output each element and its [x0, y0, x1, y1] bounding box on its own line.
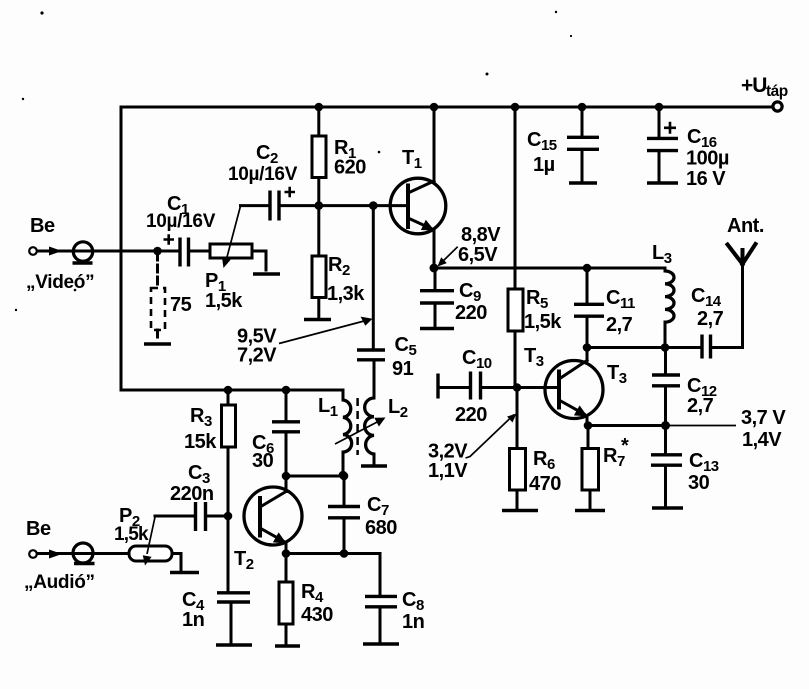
svg-text:1,5k: 1,5k: [524, 311, 562, 333]
svg-text:Be: Be: [26, 518, 51, 540]
svg-text:+U: +U: [741, 74, 766, 97]
svg-text:Be: Be: [30, 215, 55, 237]
svg-text:10µ/16V: 10µ/16V: [228, 164, 298, 185]
svg-text:6,5V: 6,5V: [458, 244, 498, 266]
svg-text:30: 30: [252, 450, 274, 472]
svg-text:„Audió”: „Audió”: [24, 572, 95, 593]
svg-text:91: 91: [392, 358, 414, 380]
svg-text:16 V: 16 V: [686, 168, 726, 190]
svg-text:1,5k: 1,5k: [114, 524, 149, 545]
svg-text:430: 430: [301, 604, 333, 626]
svg-text:„Videó”: „Videó”: [26, 272, 94, 293]
svg-text:680: 680: [365, 517, 397, 539]
svg-text:15k: 15k: [184, 431, 217, 453]
svg-text:100µ: 100µ: [686, 148, 729, 170]
svg-text:220: 220: [455, 404, 487, 426]
svg-text:1µ: 1µ: [533, 154, 555, 176]
svg-text:3,7 V: 3,7 V: [741, 407, 786, 429]
svg-text:1n: 1n: [402, 611, 424, 633]
svg-text:Ant.: Ant.: [727, 215, 764, 237]
svg-text:1n: 1n: [182, 609, 204, 631]
svg-text:8,8V: 8,8V: [461, 224, 501, 246]
svg-text:2,7: 2,7: [697, 308, 724, 330]
svg-text:1,1V: 1,1V: [428, 460, 468, 482]
svg-text:1,5k: 1,5k: [205, 290, 243, 312]
svg-text:10µ/16V: 10µ/16V: [146, 211, 216, 232]
svg-text:*: *: [621, 435, 629, 457]
svg-text:470: 470: [529, 473, 561, 495]
svg-text:620: 620: [334, 157, 366, 179]
svg-text:2,7: 2,7: [687, 395, 714, 417]
svg-text:táp: táp: [766, 83, 788, 100]
svg-text:220: 220: [455, 302, 487, 324]
svg-text:1,4V: 1,4V: [742, 429, 782, 451]
svg-text:1,3k: 1,3k: [327, 283, 365, 305]
svg-text:2,7: 2,7: [606, 314, 633, 336]
svg-text:220n: 220n: [170, 483, 214, 505]
svg-text:7,2V: 7,2V: [237, 345, 277, 367]
svg-text:75: 75: [170, 294, 192, 316]
svg-text:30: 30: [688, 472, 710, 494]
